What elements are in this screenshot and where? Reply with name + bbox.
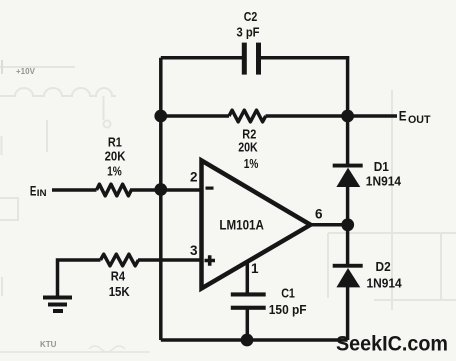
svg-text:1%: 1% <box>107 164 122 179</box>
svg-text:KTU: KTU <box>40 340 57 349</box>
svg-text:E: E <box>399 109 407 124</box>
wire ground leg up and across to R4 <box>58 260 101 296</box>
svg-text:R4: R4 <box>111 269 126 284</box>
op-amp inverting input marker <box>206 187 214 190</box>
wire D1 anode down to diode junction node <box>346 186 350 264</box>
junction C1 at bottom rail <box>241 334 254 347</box>
resistor R4 <box>101 254 139 266</box>
svg-text:15K: 15K <box>109 284 131 299</box>
svg-text:20K: 20K <box>238 140 258 155</box>
svg-text:OUT: OUT <box>408 114 431 126</box>
wire R1 to node A junction and on to pin 2 <box>130 188 202 192</box>
main schematic wires <box>52 58 397 340</box>
wire pin 1 stub down to C1 top plate <box>246 261 250 293</box>
svg-text:1%: 1% <box>244 156 259 171</box>
diode D2 <box>333 264 363 288</box>
wire D2 anode down to bottom rail <box>346 287 350 340</box>
capacitor C1 <box>231 292 266 309</box>
resistor R2 <box>229 110 266 122</box>
wire C1 bottom plate down to bottom rail <box>246 306 250 340</box>
svg-text:R1: R1 <box>108 135 122 150</box>
svg-text:E: E <box>30 184 37 199</box>
svg-text:1N914: 1N914 <box>366 174 402 189</box>
wire C2 right plate to top-right corner then down to output node <box>261 58 348 112</box>
svg-text:3: 3 <box>190 243 198 258</box>
terminal EOUT <box>399 109 431 127</box>
op-amp U1 LM101A triangle <box>202 161 311 289</box>
wire left rail (node A vertical run) <box>159 58 163 340</box>
wire R4 to pin 3 <box>138 258 202 262</box>
svg-text:3 pF: 3 pF <box>237 25 260 40</box>
svg-text:1: 1 <box>251 261 259 276</box>
capacitor C2 <box>242 43 261 75</box>
op-amp non-inverting input marker <box>205 255 216 266</box>
svg-text:D1: D1 <box>374 159 389 174</box>
junction output node at pin 6 (D1 / D2) <box>341 218 354 231</box>
wire bottom rail <box>161 338 348 342</box>
svg-text:C1: C1 <box>281 285 295 300</box>
svg-text:20K: 20K <box>105 149 126 164</box>
wire R2 row: node A to R2, R2 to output node <box>161 114 348 118</box>
terminal EIN <box>30 184 47 199</box>
wire EIN input lead <box>52 188 97 192</box>
wire pin 6 from op-amp apex to output node <box>309 223 348 227</box>
svg-text:6: 6 <box>315 206 323 221</box>
wire top rail from left rail corner to C2 left plate <box>161 56 242 60</box>
junction output node upper (C2 / R2 / EOUT) <box>341 110 354 123</box>
svg-text:LM101A: LM101A <box>219 218 264 233</box>
svg-text:+10V: +10V <box>16 67 36 76</box>
resistor R1 <box>97 184 132 196</box>
svg-text:150 pF: 150 pF <box>269 302 307 317</box>
wire output node to EOUT terminal <box>348 114 397 118</box>
svg-text:2: 2 <box>190 170 198 185</box>
svg-text:D2: D2 <box>376 259 391 274</box>
junction node A upper (R2 / rail) <box>154 110 167 123</box>
svg-text:SeekIC.com: SeekIC.com <box>336 332 448 356</box>
wire right rail: output node down to D1 cathode bar <box>346 116 350 164</box>
diode D1 <box>333 164 363 187</box>
svg-text:C2: C2 <box>244 9 257 24</box>
svg-text:1N914: 1N914 <box>367 276 403 291</box>
ground <box>43 296 72 314</box>
junction node A (R1 / pin 2 / rail) <box>154 183 167 196</box>
svg-text:IN: IN <box>37 188 47 198</box>
